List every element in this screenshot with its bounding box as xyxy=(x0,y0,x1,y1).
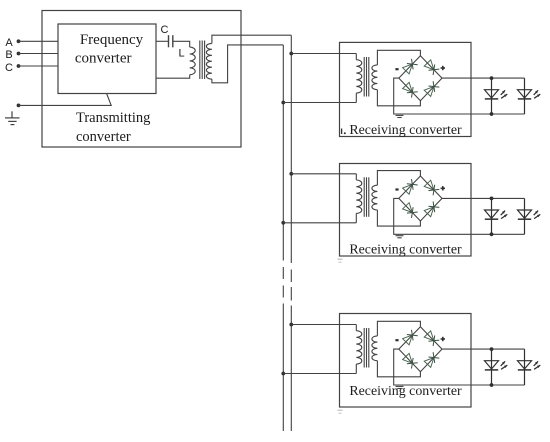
input node A xyxy=(17,39,21,43)
bridge 3 plus mark xyxy=(441,338,445,340)
svg-text:Receiving converter: Receiving converter xyxy=(349,384,462,399)
wire secondary bottom to bridge 1 xyxy=(377,90,420,106)
receiving converter 3 box xyxy=(340,314,472,408)
wire primary return to U1 xyxy=(156,75,190,79)
wire secondary top to bridge 3 xyxy=(377,321,420,336)
receiving converter 2 box xyxy=(340,164,472,257)
bridge 3 frame xyxy=(399,327,442,372)
wire secondary top to bridge 1 xyxy=(377,50,420,65)
wire bridge 1 positive output xyxy=(442,77,525,79)
wire secondary bottom to bridge 2 xyxy=(377,210,420,226)
node bus tap 1 top xyxy=(289,52,293,56)
wire bridge 3 negative output xyxy=(394,349,525,385)
bus line 1 dashed break xyxy=(290,270,292,283)
svg-text:C: C xyxy=(5,62,13,74)
bus line 2 dashed break xyxy=(282,267,284,279)
diode D21 xyxy=(403,184,413,194)
node LED junction 3 top xyxy=(490,347,494,351)
node LED junction 1 top xyxy=(490,76,494,80)
wire bridge 2 negative output xyxy=(394,198,525,234)
svg-text:A: A xyxy=(5,37,13,49)
transformer T3 core xyxy=(363,177,365,217)
diode D24 xyxy=(424,207,434,217)
wire T3 primary bottom to bus xyxy=(283,222,356,224)
diode D12 xyxy=(424,60,434,70)
LED D26 xyxy=(524,198,526,234)
svg-text:Receiving converter: Receiving converter xyxy=(349,243,462,258)
wire T4 primary bottom to bus xyxy=(283,373,356,375)
transformer T4 core xyxy=(363,328,365,368)
wire bus to T4 primary top xyxy=(291,324,356,326)
chassis mark 3 xyxy=(396,385,404,387)
node bus tap 2 top xyxy=(289,172,293,176)
wire ground to frequency converter xyxy=(19,94,112,106)
wire capacitor to primary xyxy=(173,41,190,47)
diode D23 xyxy=(403,203,413,213)
bridge 3 minus mark xyxy=(395,339,398,341)
wire T1 secondary bottom to bus xyxy=(212,45,283,83)
input node B xyxy=(17,52,21,56)
inductor L transformer T1 primary xyxy=(190,47,196,75)
bus line 2 lower segment xyxy=(282,304,284,432)
diode D13 xyxy=(403,82,413,92)
wire T2 primary bottom to bus xyxy=(283,102,356,104)
transformer T3 secondary xyxy=(372,185,378,210)
transformer T3 primary xyxy=(355,174,357,180)
transformer T2 core xyxy=(363,57,365,97)
diode D34 xyxy=(424,358,434,368)
wire phase B xyxy=(19,53,59,55)
LED D25 xyxy=(491,198,493,234)
ground node xyxy=(17,104,21,108)
tick mark 1 xyxy=(341,129,343,135)
frequency converter box U1 xyxy=(58,24,156,94)
chassis mark 1 xyxy=(396,114,404,116)
chassis mark 2 xyxy=(396,235,404,237)
transformer T1 secondary xyxy=(206,43,212,79)
LED D15 xyxy=(491,78,493,114)
svg-text:Frequency: Frequency xyxy=(80,32,144,48)
svg-text:L: L xyxy=(178,48,184,60)
bridge 1 plus mark xyxy=(441,67,445,69)
LED D36 xyxy=(524,349,526,385)
ground symbol xyxy=(11,111,13,118)
transmitting converter outer box xyxy=(42,11,241,148)
LED D16 xyxy=(524,78,526,114)
tick mark 3 xyxy=(338,409,343,411)
diode D22 xyxy=(424,180,434,190)
diode D32 xyxy=(424,331,434,341)
tick mark 2 xyxy=(338,258,343,260)
wire bridge 1 negative output xyxy=(394,78,525,114)
wire secondary top to bridge 2 xyxy=(377,171,420,186)
node bus tap 3 bottom xyxy=(281,372,285,376)
wire phase A xyxy=(19,40,59,42)
svg-text:B: B xyxy=(5,49,12,61)
node LED junction 2 top xyxy=(490,197,494,201)
node LED junction 2 bottom xyxy=(490,232,494,236)
wire bridge 2 positive output xyxy=(442,197,525,199)
diode D14 xyxy=(424,87,434,97)
svg-text:C: C xyxy=(161,24,169,36)
wire phase C xyxy=(19,65,59,67)
node LED junction 1 bottom xyxy=(490,112,494,116)
node bus tap 1 bottom xyxy=(281,101,285,105)
svg-text:Receiving converter: Receiving converter xyxy=(349,123,462,138)
diode D31 xyxy=(403,335,413,345)
wire secondary bottom to bridge 3 xyxy=(377,361,420,377)
bus line 1 lower segment xyxy=(290,306,292,432)
LED D35 xyxy=(491,349,493,385)
wire U1 to capacitor xyxy=(156,40,168,42)
capacitor C1 xyxy=(168,35,170,47)
transformer T1 core xyxy=(199,41,201,80)
input node C xyxy=(17,64,21,68)
transformer T2 primary xyxy=(355,54,357,60)
svg-text:converter: converter xyxy=(75,50,132,66)
svg-text:Transmitting: Transmitting xyxy=(76,110,150,126)
bridge 2 minus mark xyxy=(395,188,398,190)
wire bus to T2 primary top xyxy=(291,53,356,55)
node LED junction 3 bottom xyxy=(490,383,494,387)
diode D11 xyxy=(403,64,413,74)
node bus tap 2 bottom xyxy=(281,221,285,225)
transformer T2 secondary xyxy=(372,65,378,90)
svg-text:converter: converter xyxy=(76,129,131,145)
wire T1 secondary top to bus xyxy=(212,35,291,43)
bridge 2 frame xyxy=(399,176,442,221)
bridge 1 frame xyxy=(399,56,442,101)
bridge 2 plus mark xyxy=(441,187,445,189)
wire bus to T3 primary top xyxy=(291,173,356,175)
transformer T4 secondary xyxy=(372,336,378,361)
bus line 2 upper segment xyxy=(282,45,284,261)
wire bridge 3 positive output xyxy=(442,348,525,350)
receiving converter 1 box xyxy=(340,42,472,136)
transformer T4 primary xyxy=(355,325,357,331)
node bus tap 3 top xyxy=(289,323,293,327)
bus line 1 upper segment xyxy=(290,35,292,263)
bridge 1 minus mark xyxy=(395,68,398,70)
diode D33 xyxy=(403,353,413,363)
